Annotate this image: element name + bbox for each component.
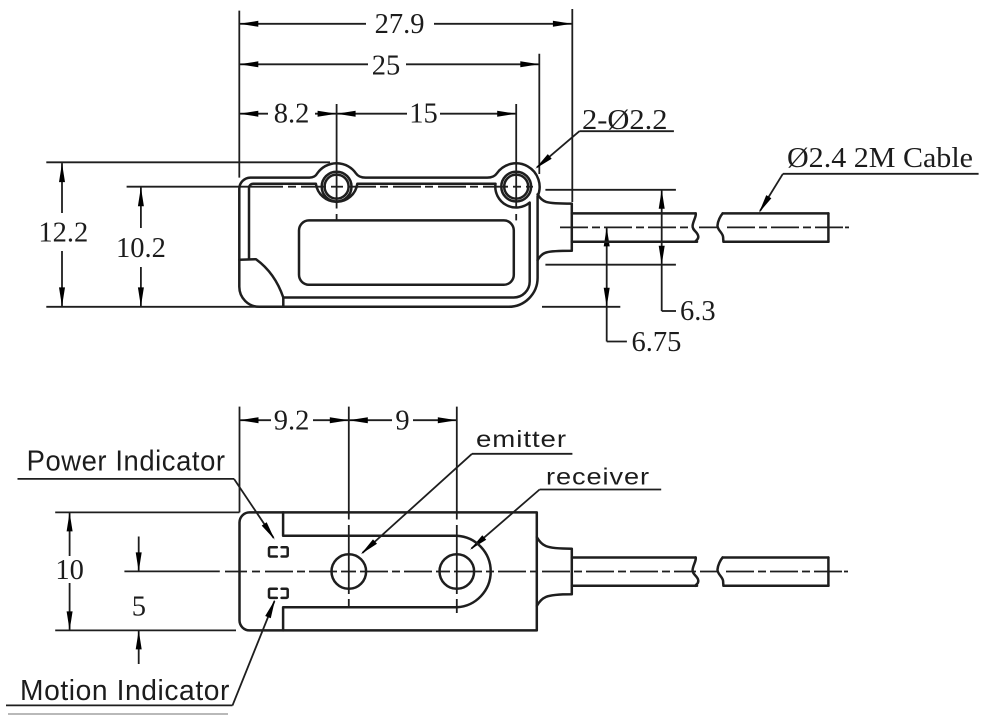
hole 2 vertical centerline bbox=[515, 104, 517, 209]
cable break squiggle 2 bbox=[717, 213, 723, 241]
label Power Indicator with leader bbox=[18, 445, 278, 541]
emitter window circle bbox=[332, 554, 367, 589]
label receiver with leader bbox=[468, 463, 661, 552]
dimension 27.9 bbox=[239, 9, 572, 40]
power indicator LED bbox=[269, 547, 277, 556]
svg-text:receiver: receiver bbox=[546, 463, 650, 489]
svg-text:27.9: 27.9 bbox=[375, 9, 425, 40]
extension line for 10.2 / hole centerline extended left bbox=[127, 186, 240, 188]
svg-text:25: 25 bbox=[372, 51, 401, 82]
dimension 9.2 bbox=[240, 406, 349, 437]
cable break squiggle 1 bbox=[693, 213, 699, 241]
dimension 9 bbox=[349, 406, 457, 437]
extension line right for 25 bbox=[538, 54, 540, 174]
cable segment 1 (bottom view) bbox=[572, 556, 696, 559]
extension line top (for 10) bbox=[55, 511, 239, 513]
inner contour (top view) bbox=[249, 184, 530, 298]
svg-text:6.3: 6.3 bbox=[680, 296, 716, 327]
svg-text:9: 9 bbox=[395, 406, 409, 437]
label Motion Indicator with leader bbox=[6, 598, 278, 707]
label Ø2.4 2M Cable with leader bbox=[756, 143, 978, 214]
cable exit protrusion (bottom view) bbox=[537, 537, 572, 606]
cable centerline (top view, dash-dot) bbox=[560, 226, 849, 228]
dimension 6.75 bbox=[604, 227, 682, 358]
cable end cap bbox=[827, 213, 830, 241]
svg-text:12.2: 12.2 bbox=[38, 217, 88, 248]
extension line right for 27.9 bbox=[571, 9, 573, 202]
extension line bottom (for 10/5) bbox=[55, 629, 236, 631]
hole 1 vertical centerline bbox=[336, 104, 338, 209]
dimension 6.3 bbox=[659, 190, 716, 327]
svg-text:10: 10 bbox=[55, 555, 84, 586]
svg-text:Power Indicator: Power Indicator bbox=[27, 445, 226, 477]
svg-text:6.75: 6.75 bbox=[632, 327, 682, 358]
mounting hole 2 bbox=[501, 172, 531, 202]
emitter vertical centerline bbox=[348, 407, 350, 607]
dimension 25 bbox=[239, 51, 539, 82]
cable segment 2 (bottom view) bbox=[723, 556, 829, 559]
optical slot contour bbox=[283, 512, 491, 630]
cable segment 1 (top view) bbox=[572, 212, 696, 215]
svg-text:10.2: 10.2 bbox=[116, 233, 166, 264]
corner leaf detail bottom-left bbox=[239, 259, 283, 306]
extension line left (body left edge extended, for 27.9/25/8.2) bbox=[238, 11, 240, 178]
extension lines for 6.3 bbox=[545, 189, 676, 191]
label 2-Ø2.2 with leader bbox=[533, 105, 674, 171]
horizontal centerline (bottom view, dash-dot) bbox=[225, 571, 848, 573]
dimension 12.2 bbox=[38, 163, 88, 306]
label emitter with leader bbox=[359, 426, 573, 557]
extension of centerline left (for 5) bbox=[124, 570, 219, 572]
sensor body outline (bottom view) bbox=[240, 512, 537, 630]
svg-text:8.2: 8.2 bbox=[274, 99, 310, 130]
window (rounded rect cutout) bbox=[299, 220, 514, 284]
extension line bottom right (body bottom extended, for 6.75) bbox=[542, 306, 620, 308]
dimension 8.2 bbox=[239, 99, 336, 130]
receiver vertical centerline bbox=[456, 407, 458, 613]
extension line left (for 9.2) bbox=[239, 407, 241, 513]
dimension 15 bbox=[337, 99, 517, 130]
cable segment 2 (top view) bbox=[723, 212, 829, 215]
dimension 10.2 bbox=[116, 187, 166, 306]
dimension 10 bbox=[55, 512, 84, 630]
holes horizontal centerline (dash-dot) bbox=[240, 186, 533, 188]
cable break squiggles (bottom view) bbox=[693, 558, 699, 586]
motion indicator LED bbox=[269, 589, 277, 598]
dimension 5 (outside arrows) bbox=[132, 537, 146, 665]
svg-text:emitter: emitter bbox=[476, 426, 567, 452]
svg-text:9.2: 9.2 bbox=[274, 406, 310, 437]
cable exit protrusion (top view) bbox=[538, 194, 572, 260]
svg-text:15: 15 bbox=[409, 99, 438, 130]
extension line top for 12.2 (tangent to ear tops) bbox=[46, 161, 330, 163]
receiver window circle bbox=[440, 554, 475, 589]
extension line bottom left (body bottom extended, for 12.2/10.2) bbox=[46, 306, 260, 308]
svg-text:5: 5 bbox=[132, 591, 146, 622]
mounting hole 1 bbox=[322, 172, 352, 202]
svg-text:Motion Indicator: Motion Indicator bbox=[20, 675, 230, 707]
svg-text:Ø2.4 2M Cable: Ø2.4 2M Cable bbox=[787, 143, 973, 174]
cable end cap (bottom view) bbox=[827, 558, 830, 586]
sensor body outline (top view) bbox=[239, 163, 539, 307]
scan artifact ghost line bbox=[8, 713, 228, 715]
